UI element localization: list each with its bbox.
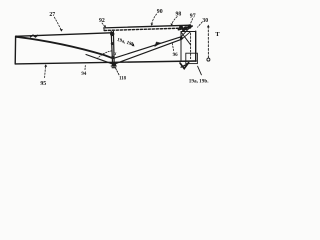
leader 90 (152, 14, 157, 24)
svg-text:94: 94 (81, 72, 86, 77)
belt lower extension into box (182, 32, 191, 39)
pivot blob upper (110, 32, 114, 36)
box hidden shaft line (190, 33, 192, 58)
arrowhead 92 (104, 25, 106, 27)
head pulley blob cluster (179, 25, 192, 31)
cover underside hidden line (104, 28, 190, 31)
leader 97 (190, 19, 193, 25)
leader 30 (198, 22, 203, 27)
vertical post right line (112, 31, 115, 65)
box inner diagonal (181, 32, 190, 45)
leader 19a19b bottom (198, 66, 202, 75)
svg-text:118: 118 (119, 77, 127, 82)
svg-text:19a, 19b: 19a, 19b (116, 38, 135, 48)
arrowhead 97 (189, 24, 192, 27)
svg-text:92: 92 (99, 18, 105, 24)
tank bottom edge (15, 61, 196, 64)
arrowhead 27 (60, 29, 63, 32)
belt left upper run (curved diagonal) (17, 37, 113, 58)
leader 94 (84, 64, 86, 69)
vertical post left line (111, 31, 112, 65)
roller hatch lower (112, 67, 115, 69)
dimension T line (207, 26, 209, 57)
svg-text:30: 30 (202, 18, 208, 24)
drain cross stroke (181, 64, 188, 67)
svg-text:27: 27 (49, 12, 55, 18)
drain V below box (180, 63, 189, 69)
right end box (181, 32, 196, 62)
leader 96 (172, 42, 174, 50)
angle arc for alpha (97, 51, 112, 59)
head pulley heavy stroke (179, 26, 193, 30)
tank top edge (left portion) (16, 33, 111, 37)
dimension T bottom circle (207, 58, 210, 61)
svg-text:96: 96 (173, 53, 179, 58)
dimension T top arrowhead (207, 25, 210, 28)
svg-text:90: 90 (157, 9, 163, 15)
top edge knot (31, 35, 38, 37)
tank right wall (195, 31, 197, 61)
arrowhead 95 (44, 64, 47, 67)
belt right run extension to head pulley (181, 28, 189, 37)
svg-text:98: 98 (176, 11, 182, 17)
belt left lower run (86, 55, 114, 65)
pivot blob middle (111, 42, 114, 45)
bearing block (186, 53, 198, 63)
tank left wall (14, 36, 16, 64)
svg-text:97: 97 (190, 13, 196, 19)
arrowhead 19a19b mid (132, 44, 135, 47)
leader 98 (172, 17, 177, 24)
svg-text:19a, 19b.: 19a, 19b. (189, 79, 209, 85)
belt direction arrowhead (155, 42, 161, 47)
cover left end tick (103, 28, 105, 31)
arrowhead 90 (151, 23, 154, 26)
bottom vertex roller (112, 63, 116, 67)
belt right run upper line (113, 37, 181, 59)
leader 118 (116, 68, 119, 75)
leader 92 (102, 23, 105, 26)
leader 27 (54, 17, 61, 29)
cover top plate (104, 25, 190, 28)
corner junction blob (15, 36, 17, 38)
belt junction blob at box (180, 36, 183, 39)
arrowhead 98 (171, 23, 174, 26)
post middle pulley blob (111, 56, 114, 59)
svg-text:α: α (113, 51, 117, 57)
roller hatch upper (111, 65, 116, 67)
svg-text:T: T (215, 31, 220, 38)
leader 19a19b mid arrow (130, 43, 133, 45)
svg-text:95: 95 (40, 81, 46, 87)
belt right run lower line (114, 39, 182, 64)
leader 95 (44, 67, 47, 78)
